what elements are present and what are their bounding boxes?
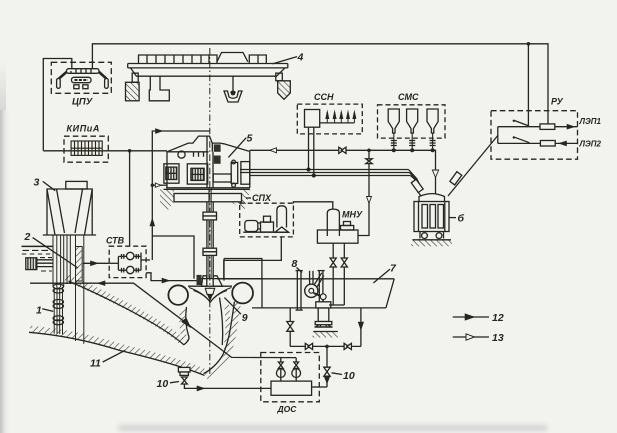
- svg-text:10: 10: [157, 378, 169, 390]
- label 9 pointer: [224, 298, 241, 315]
- transformer bushing right: [448, 136, 498, 197]
- wire to LEP1 with arrow: [555, 124, 578, 129]
- stator winding left: [164, 164, 179, 183]
- svg-text:7: 7: [390, 263, 397, 275]
- panel KIPiA dashed box: [64, 136, 108, 162]
- generator shaft upper: [207, 136, 213, 188]
- svg-text:СТВ: СТВ: [106, 236, 125, 246]
- SSN feeder arrows: [320, 110, 357, 123]
- disconnector switch 1: [498, 120, 540, 127]
- wire STV outlet to turbine: [146, 273, 199, 283]
- wire intake to STV arrow: [83, 261, 109, 266]
- label 1 pointer: [42, 309, 53, 312]
- ground hatch band: [30, 329, 204, 372]
- bottom caption smudge: [118, 425, 548, 431]
- pump station STV dashed box: [109, 246, 146, 277]
- svg-text:ССН: ССН: [314, 92, 334, 102]
- wire to DOS with valve 10: [324, 346, 330, 387]
- turbine shaft: [207, 188, 213, 279]
- valve on left oil line: [330, 258, 336, 267]
- node bus junction: [527, 42, 531, 46]
- intake tower 3 cap: [66, 181, 87, 189]
- svg-text:11: 11: [90, 358, 101, 370]
- intake tower body: [47, 189, 92, 235]
- label 4 pointer: [272, 57, 297, 64]
- SMS hopper 2: [407, 109, 418, 150]
- wire turbine pit line: [152, 236, 194, 279]
- wire SPH to turbine: [224, 237, 281, 279]
- drain from pipe end: [358, 308, 363, 347]
- STV pump loop: [109, 252, 150, 273]
- svg-text:МНУ: МНУ: [342, 210, 363, 220]
- wire sensor to DOS lower: [184, 384, 271, 391]
- svg-text:8: 8: [292, 258, 298, 270]
- auxiliary bus to SMS and transformer: [250, 147, 439, 194]
- draft tube hatch band: [206, 303, 238, 377]
- penstock upper line 11: [69, 281, 185, 345]
- panel CPU dashed box: [51, 62, 111, 93]
- svg-text:2: 2: [24, 231, 31, 243]
- intake deck: [43, 234, 96, 236]
- SMS dashed box: [378, 105, 446, 138]
- penstock drop pipe 1: [54, 287, 62, 334]
- guide bearing pedestal: [231, 160, 238, 187]
- SSN dashed box: [297, 104, 362, 134]
- svg-text:КИПиА: КИПиА: [67, 124, 100, 134]
- transformer wheels: [420, 232, 444, 239]
- crane 4 bridge girder: [128, 64, 288, 77]
- DOS tank: [271, 381, 312, 395]
- sensor 10 on draft tube: [178, 367, 190, 384]
- draft tube outer curve: [204, 302, 235, 374]
- instrument comb icon KIPiA: [71, 141, 102, 155]
- crane trolley squares: [139, 53, 267, 64]
- generator three-phase bus: [240, 170, 420, 184]
- MNU oil unit: [317, 209, 358, 243]
- transformer bushing left: [411, 179, 423, 196]
- servomotor cylinder: [315, 300, 333, 327]
- control desk icon U-CPU: [57, 69, 109, 89]
- label 10 left pointer: [170, 382, 179, 383]
- pit cover box: [213, 174, 231, 182]
- shaft flange 1: [203, 212, 217, 220]
- pipe collars: [53, 284, 63, 325]
- label 5 pointer: [228, 138, 246, 158]
- wire top control bus: [92, 44, 548, 126]
- svg-text:5: 5: [247, 133, 253, 145]
- svg-text:ЛЭП1: ЛЭП1: [579, 117, 602, 126]
- gate hoist block: [26, 258, 53, 270]
- label 8 pointer: [297, 268, 303, 273]
- wire down to STV: [129, 151, 131, 246]
- penstock hatch band: [66, 278, 183, 343]
- crane left leg: [126, 73, 140, 101]
- wire KIPiA to generator: [43, 150, 167, 152]
- svg-text:ЛЭП2: ЛЭП2: [579, 140, 602, 149]
- node bus-MNU dot: [367, 149, 371, 153]
- wire SPH to MNU: [293, 202, 332, 209]
- breaker 2: [540, 141, 555, 147]
- svg-text:СПХ: СПХ: [252, 193, 272, 203]
- svg-text:3: 3: [34, 177, 40, 189]
- butterfly valve 8: [296, 271, 327, 311]
- label 2 pointer: [33, 238, 78, 268]
- svg-text:б: б: [458, 213, 465, 225]
- shaft flange 2: [203, 248, 217, 255]
- label 10 right pointer: [332, 373, 343, 375]
- transformer ground: [411, 240, 452, 247]
- legend arrow 12: [453, 314, 489, 320]
- disconnector switch 2: [498, 136, 541, 143]
- pipe 7 outline: [217, 259, 394, 308]
- legend arrow 13: [453, 334, 489, 340]
- SMS hopper 1: [388, 109, 399, 150]
- draft wall hatch band: [182, 309, 185, 341]
- SSN transformer square: [305, 110, 320, 128]
- transformer 6 body: [414, 194, 449, 232]
- thrust block: [241, 162, 250, 185]
- turbine 9 spiral case circles: [168, 283, 253, 305]
- label 3 pointer: [43, 181, 56, 190]
- drain line from pipe with valve: [287, 308, 294, 347]
- cone inner hatch: [226, 305, 228, 349]
- generator 5 body: [167, 136, 250, 188]
- breaker 1: [540, 124, 555, 129]
- node drain junction: [325, 345, 329, 349]
- servomotor ground: [313, 332, 339, 338]
- node SSN taps: [307, 168, 316, 178]
- ground line lower: [29, 332, 205, 375]
- trash rack 2 hatched strip: [76, 247, 83, 282]
- foundation slab: [160, 189, 251, 212]
- wire bus to MNU: [358, 150, 372, 235]
- node SMS taps: [392, 148, 435, 152]
- svg-text:13: 13: [492, 332, 504, 344]
- SPH dashed box: [240, 203, 294, 237]
- stator winding right: [187, 164, 207, 184]
- node junction at 129.6,150.8: [128, 149, 132, 153]
- crane hook: [224, 76, 242, 102]
- water surface: [22, 246, 54, 271]
- svg-text:ЦПУ: ЦПУ: [72, 97, 94, 108]
- intake gate slots: [53, 235, 84, 344]
- svg-text:1: 1: [36, 305, 42, 317]
- SSN down leads: [309, 127, 314, 175]
- draft tube inner curve: [220, 298, 223, 346]
- wire drainage return with left arrow: [30, 281, 296, 358]
- DOS strainers: [276, 358, 300, 381]
- label 11 pointer: [103, 350, 126, 362]
- turbine head cover: [188, 275, 263, 286]
- wire CPU to KIPiA link: [43, 59, 72, 151]
- SPH pump unit: [243, 206, 289, 232]
- generator dark grilles: [214, 144, 221, 163]
- svg-text:10: 10: [343, 370, 355, 382]
- svg-text:РУ: РУ: [551, 97, 564, 107]
- SMS hopper 3: [427, 109, 438, 150]
- generator base line: [166, 187, 250, 189]
- wire cooling riser STV to generator: [150, 129, 210, 260]
- RU left bus: [497, 127, 499, 144]
- crane cabin box: [149, 76, 169, 101]
- oil lines MNU to servomotor: [329, 243, 344, 305]
- node riser branch dot: [151, 184, 154, 187]
- valve on right oil line: [341, 258, 347, 267]
- axis line of unit: [209, 48, 211, 374]
- wire branch to generator left: [152, 183, 167, 187]
- svg-text:ДОС: ДОС: [277, 404, 298, 414]
- svg-text:12: 12: [492, 312, 504, 324]
- RU dashed box: [491, 111, 578, 160]
- generator vents: [194, 152, 204, 157]
- draft cone left wall: [184, 307, 189, 345]
- left scan edge: [0, 110, 9, 433]
- svg-text:4: 4: [297, 52, 304, 64]
- svg-text:СМС: СМС: [398, 92, 419, 102]
- svg-text:9: 9: [242, 312, 248, 324]
- generator porthole: [178, 151, 185, 158]
- DOS dashed box: [261, 353, 320, 402]
- label 6 pointer: [449, 217, 456, 219]
- label 7 pointer: [373, 269, 390, 283]
- wire to LEP2 with arrow: [555, 141, 577, 146]
- crane right leg: [276, 73, 291, 99]
- label SPH dash: [246, 197, 251, 199]
- turbine runner: [189, 288, 232, 303]
- drain collector line: [290, 343, 361, 349]
